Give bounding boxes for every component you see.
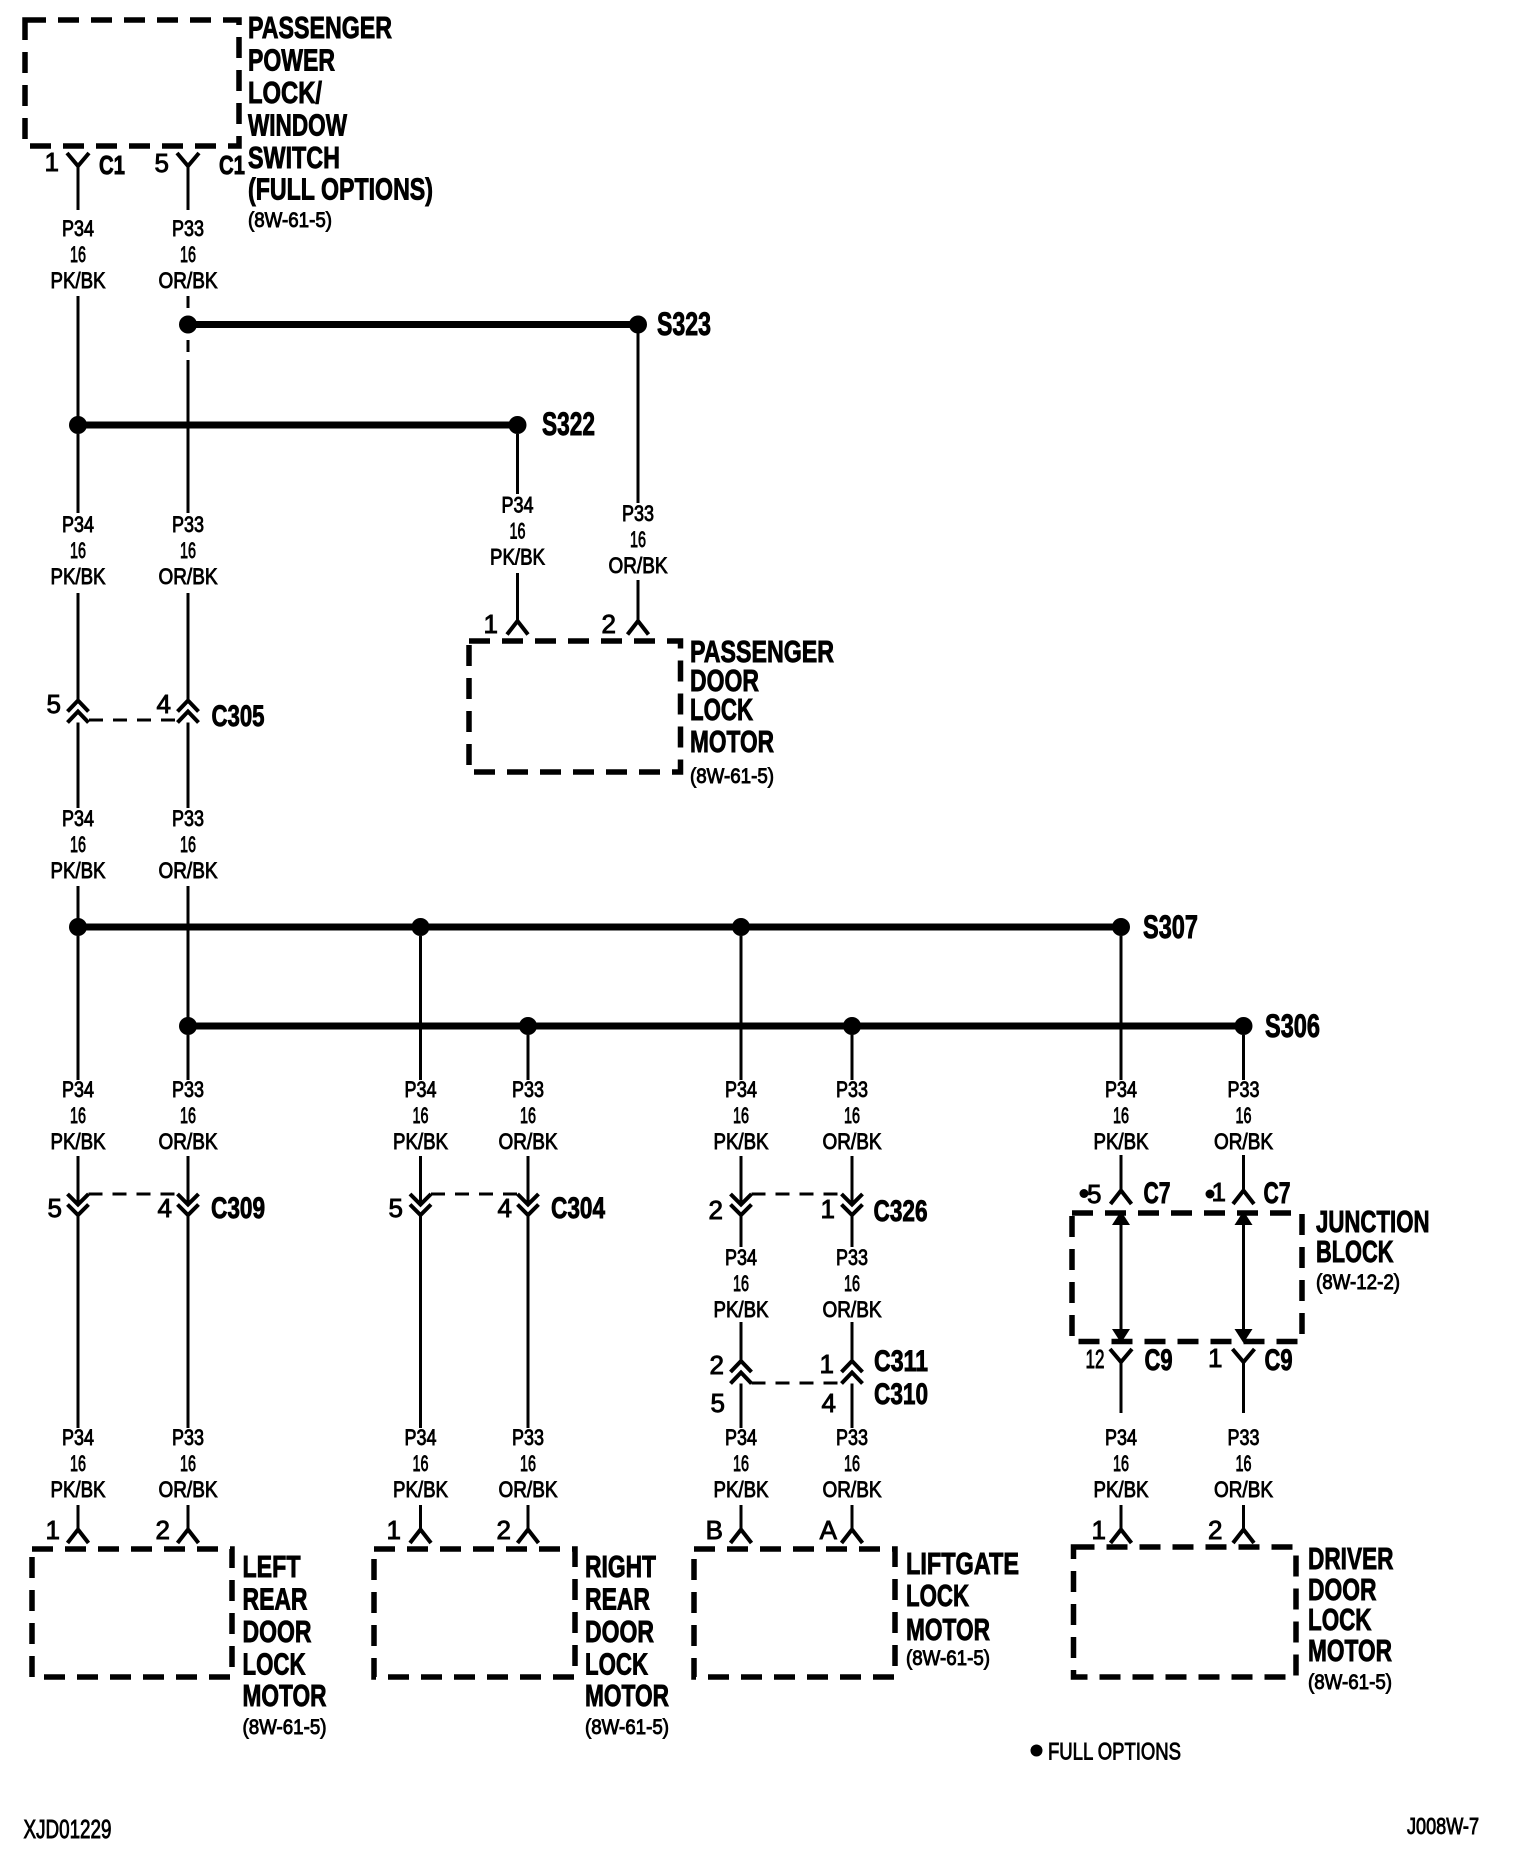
svg-text:1: 1 xyxy=(46,1515,60,1545)
svg-text:(8W-61-5): (8W-61-5) xyxy=(690,765,774,788)
wire label P33 16 OR/BK (left, above C305) xyxy=(159,512,218,589)
svg-text:POWER: POWER xyxy=(248,43,335,78)
wire label P33 16 OR/BK (liftgate, above C311) xyxy=(823,1245,882,1322)
wire P34 from S307 crossing S306 to label (right rear column) xyxy=(419,936,422,1080)
svg-text:16: 16 xyxy=(630,527,646,552)
connector C326 mating dashed link xyxy=(752,1193,842,1196)
svg-text:2: 2 xyxy=(602,609,616,639)
svg-text:16: 16 xyxy=(1236,1451,1252,1476)
svg-text:C9: C9 xyxy=(1265,1344,1293,1377)
svg-text:4: 4 xyxy=(822,1388,836,1418)
label: JUNCTION BLOCK (8W-12-2) xyxy=(1316,1204,1430,1294)
svg-text:(FULL OPTIONS): (FULL OPTIONS) xyxy=(248,172,433,207)
label: LIFTGATE LOCK MOTOR (8W-61-5) xyxy=(906,1546,1019,1670)
svg-text:LEFT: LEFT xyxy=(243,1549,301,1584)
svg-text:P33: P33 xyxy=(836,1245,868,1270)
wire P34 from label down to connector C305 pin 5 xyxy=(77,593,80,700)
splice S322 bus with junction dots xyxy=(69,416,527,434)
wire label P34 16 PK/BK (above S307) xyxy=(51,806,106,883)
junction block internal circuit arrow (P34 path) xyxy=(1112,1211,1130,1343)
svg-text:DOOR: DOOR xyxy=(243,1614,312,1649)
splice S323 bus with junction dots xyxy=(179,316,647,334)
wire P33 below C326 to label (liftgate) xyxy=(851,1215,854,1247)
wire P34 from C304 down to right rear motor label xyxy=(419,1215,422,1428)
svg-text:REAR: REAR xyxy=(243,1582,308,1617)
pin fork right rear motor pin 2 xyxy=(518,1505,539,1543)
label: RIGHT REAR DOOR LOCK MOTOR (8W-61-5) xyxy=(585,1549,669,1739)
svg-text:P33: P33 xyxy=(622,501,654,526)
wire label P34 16 PK/BK (top left) xyxy=(51,216,106,293)
pin fork driver motor pin 1 xyxy=(1111,1505,1132,1543)
svg-text:REAR: REAR xyxy=(585,1582,650,1617)
svg-text:P33: P33 xyxy=(172,512,204,537)
splice S307 bus with junction dots xyxy=(69,918,1130,936)
pin fork liftgate motor pin A xyxy=(842,1505,863,1543)
full-options bullet at C7 pin 5 xyxy=(1080,1189,1089,1198)
svg-text:4: 4 xyxy=(157,689,171,719)
svg-text:XJD01229: XJD01229 xyxy=(24,1814,112,1844)
svg-text:P34: P34 xyxy=(405,1425,437,1450)
connector C7 pin 5 fork xyxy=(1111,1191,1132,1205)
wire P33 from C1 pin5 down to splice S323 (dashed near splice) xyxy=(187,296,190,308)
connector C305 pin 4 chevrons (in-line) xyxy=(178,701,199,723)
pin fork right rear motor pin 1 xyxy=(410,1505,431,1543)
svg-text:1: 1 xyxy=(484,609,498,639)
svg-text:B: B xyxy=(706,1515,723,1545)
component box: passenger door lock motor xyxy=(469,641,681,772)
junction block internal circuit arrow (P33 path) xyxy=(1235,1211,1253,1343)
svg-text:P34: P34 xyxy=(725,1077,757,1102)
svg-text:P33: P33 xyxy=(1228,1425,1260,1450)
svg-text:PK/BK: PK/BK xyxy=(393,1477,448,1502)
pin fork driver motor pin 2 xyxy=(1233,1505,1254,1543)
pin fork 1 of passenger door lock motor xyxy=(507,573,528,635)
svg-text:OR/BK: OR/BK xyxy=(823,1477,882,1502)
wire label P34 16 PK/BK (passenger branch) xyxy=(490,493,545,570)
wire label P33 16 OR/BK (right rear motor) xyxy=(499,1425,558,1502)
svg-text:BLOCK: BLOCK xyxy=(1316,1234,1394,1269)
svg-text:LOCK: LOCK xyxy=(243,1647,306,1682)
svg-text:PASSENGER: PASSENGER xyxy=(248,10,392,45)
wire label P34 16 PK/BK (driver P34 above connector) xyxy=(1094,1077,1149,1154)
connector C311/C310 mating dashed link xyxy=(752,1382,842,1385)
svg-text:MOTOR: MOTOR xyxy=(1308,1633,1392,1668)
svg-text:LOCK: LOCK xyxy=(585,1647,648,1682)
svg-text:SWITCH: SWITCH xyxy=(248,140,340,175)
connector C309 pin 5 chevrons (in-line) xyxy=(68,1194,89,1215)
svg-text:P33: P33 xyxy=(172,806,204,831)
svg-text:P33: P33 xyxy=(512,1425,544,1450)
wire P34 from label down to splice S307 xyxy=(77,886,80,927)
svg-text:16: 16 xyxy=(413,1103,429,1128)
wire P34 from S307 crossing S306 to label (liftgate column) xyxy=(740,936,743,1080)
svg-text:P34: P34 xyxy=(1105,1425,1137,1450)
wire P34 branch from S322 down to passenger door lock motor xyxy=(516,434,519,494)
svg-text:OR/BK: OR/BK xyxy=(1214,1129,1273,1154)
svg-text:1: 1 xyxy=(1212,1177,1226,1207)
svg-text:PK/BK: PK/BK xyxy=(714,1297,769,1322)
wire P33 from S306 to label (liftgate column) xyxy=(851,1035,854,1080)
svg-text:OR/BK: OR/BK xyxy=(823,1297,882,1322)
svg-text:C9: C9 xyxy=(1145,1344,1173,1377)
svg-text:5: 5 xyxy=(155,148,169,178)
svg-text:A: A xyxy=(820,1515,838,1545)
wire P33 from label into connector C311 pin 1 xyxy=(851,1322,854,1361)
svg-text:C7: C7 xyxy=(1264,1177,1291,1210)
svg-text:16: 16 xyxy=(733,1103,749,1128)
wire label P33 16 OR/BK (top right) xyxy=(159,216,218,293)
wire label P33 16 OR/BK (left rear motor) xyxy=(159,1425,218,1502)
svg-text:PK/BK: PK/BK xyxy=(393,1129,448,1154)
svg-text:1: 1 xyxy=(821,1194,835,1224)
svg-text:16: 16 xyxy=(733,1451,749,1476)
svg-text:P33: P33 xyxy=(512,1077,544,1102)
svg-text:P34: P34 xyxy=(62,1077,94,1102)
connector C311/C310 pins 1/4 chevrons (in-line) xyxy=(842,1361,863,1384)
svg-text:1: 1 xyxy=(820,1349,834,1379)
svg-text:LOCK: LOCK xyxy=(690,692,753,727)
connector C309 mating dashed link xyxy=(89,1193,178,1196)
wire stem into C309 pin4 xyxy=(187,1156,190,1204)
svg-text:P34: P34 xyxy=(502,493,534,518)
svg-text:16: 16 xyxy=(844,1451,860,1476)
component box: liftgate lock motor xyxy=(694,1549,895,1677)
svg-text:P33: P33 xyxy=(172,1425,204,1450)
svg-text:16: 16 xyxy=(844,1103,860,1128)
svg-text:C311: C311 xyxy=(874,1345,928,1378)
svg-text:16: 16 xyxy=(510,519,526,544)
pin fork liftgate motor pin B xyxy=(731,1505,752,1543)
svg-text:PK/BK: PK/BK xyxy=(714,1477,769,1502)
svg-text:1: 1 xyxy=(1092,1515,1106,1545)
svg-text:OR/BK: OR/BK xyxy=(159,268,218,293)
wire P33 below C305 to label xyxy=(187,723,190,809)
svg-text:S323: S323 xyxy=(657,306,711,342)
svg-text:S307: S307 xyxy=(1143,909,1198,945)
connector C305 mating dashed link xyxy=(89,719,177,722)
svg-text:16: 16 xyxy=(520,1103,536,1128)
wire label P34 16 PK/BK (left, above C305) xyxy=(51,512,106,589)
wire label P33 16 OR/BK (left rear P33 above connector) xyxy=(159,1077,218,1154)
label: PASSENGER DOOR LOCK MOTOR (8W-61-5) xyxy=(690,634,834,788)
svg-text:16: 16 xyxy=(1236,1103,1252,1128)
wire label P33 16 OR/BK (driver P33 above connector) xyxy=(1214,1077,1273,1154)
svg-text:16: 16 xyxy=(180,1103,196,1128)
wire P34 from S307 crossing S306 to label (driver column) xyxy=(1120,936,1123,1080)
svg-text:16: 16 xyxy=(844,1271,860,1296)
svg-text:P34: P34 xyxy=(62,1425,94,1450)
wire P33 below splice S323 down crossing S322 to label xyxy=(187,340,190,513)
wire P33 from S306 to label (right rear column) xyxy=(527,1035,530,1080)
svg-text:MOTOR: MOTOR xyxy=(906,1612,990,1647)
connector C305 pin 5 chevrons (in-line) xyxy=(68,701,89,723)
svg-text:2: 2 xyxy=(497,1515,511,1545)
wire P33 below C310 to liftgate motor label xyxy=(851,1384,854,1429)
svg-text:OR/BK: OR/BK xyxy=(1214,1477,1273,1502)
svg-text:OR/BK: OR/BK xyxy=(159,1129,218,1154)
wire stem into connector C7 pin 5 xyxy=(1120,1155,1123,1190)
component box: junction block xyxy=(1072,1213,1302,1342)
svg-text:OR/BK: OR/BK xyxy=(159,1477,218,1502)
svg-text:LOCK: LOCK xyxy=(1308,1602,1372,1637)
svg-text:C309: C309 xyxy=(211,1192,265,1225)
svg-text:PK/BK: PK/BK xyxy=(51,564,106,589)
svg-text:2: 2 xyxy=(710,1350,724,1380)
svg-text:(8W-61-5): (8W-61-5) xyxy=(585,1716,669,1739)
svg-text:P34: P34 xyxy=(405,1077,437,1102)
svg-text:12: 12 xyxy=(1086,1344,1105,1374)
svg-text:4: 4 xyxy=(158,1193,172,1223)
wire stem into C304 pin4 xyxy=(527,1156,530,1204)
connector C9 pin 1 fork xyxy=(1233,1349,1255,1413)
svg-text:P33: P33 xyxy=(836,1077,868,1102)
svg-text:5: 5 xyxy=(48,1193,62,1223)
svg-text:PK/BK: PK/BK xyxy=(1094,1477,1149,1502)
svg-text:LOCK: LOCK xyxy=(906,1578,969,1613)
component box: right rear door lock motor xyxy=(374,1549,575,1677)
pin fork left rear motor pin 2 xyxy=(178,1505,199,1543)
svg-text:C305: C305 xyxy=(212,700,265,733)
svg-text:16: 16 xyxy=(1113,1103,1129,1128)
svg-text:1: 1 xyxy=(387,1515,401,1545)
label: PASSENGER POWER LOCK/WINDOW SWITCH (FULL OPTIONS) (8W-61-5) xyxy=(248,10,433,232)
svg-text:P33: P33 xyxy=(172,216,204,241)
svg-text:MOTOR: MOTOR xyxy=(690,724,774,759)
svg-text:5: 5 xyxy=(711,1388,725,1418)
label: DRIVER DOOR LOCK MOTOR (8W-61-5) xyxy=(1308,1541,1394,1694)
svg-text:5: 5 xyxy=(47,689,61,719)
wire label P34 16 PK/BK (liftgate motor) xyxy=(714,1425,769,1502)
wire label P34 16 PK/BK (liftgate, above C311) xyxy=(714,1245,769,1322)
connector C309 pin 4 chevrons (in-line) xyxy=(178,1194,199,1215)
svg-text:PK/BK: PK/BK xyxy=(51,1129,106,1154)
pin fork 2 of passenger door lock motor xyxy=(628,580,649,635)
component box: driver door lock motor xyxy=(1074,1547,1297,1677)
svg-text:P34: P34 xyxy=(725,1245,757,1270)
svg-text:2: 2 xyxy=(1208,1515,1222,1545)
wire P34 from C309 down to left rear motor label xyxy=(77,1215,80,1428)
connector C304 pin 5 chevrons (in-line) xyxy=(410,1194,431,1215)
wire P34 from S307 to label (left rear column) xyxy=(77,936,80,1080)
svg-text:P34: P34 xyxy=(62,216,94,241)
wire P33 from C309 down to left rear motor label xyxy=(187,1215,190,1428)
svg-text:P33: P33 xyxy=(172,1077,204,1102)
svg-text:OR/BK: OR/BK xyxy=(159,858,218,883)
wire P34 below C305 to label xyxy=(77,723,80,809)
svg-text:PK/BK: PK/BK xyxy=(51,858,106,883)
svg-text:16: 16 xyxy=(413,1451,429,1476)
svg-text:(8W-61-5): (8W-61-5) xyxy=(1308,1671,1392,1694)
svg-text:P34: P34 xyxy=(1105,1077,1137,1102)
svg-text:RIGHT: RIGHT xyxy=(585,1549,656,1584)
svg-text:C1: C1 xyxy=(219,150,245,180)
svg-text:C7: C7 xyxy=(1144,1177,1171,1210)
svg-text:16: 16 xyxy=(733,1271,749,1296)
wire label P34 16 PK/BK (driver motor) xyxy=(1094,1425,1149,1502)
pin fork left rear motor pin 1 xyxy=(68,1505,89,1543)
svg-text:16: 16 xyxy=(70,1451,86,1476)
svg-text:C326: C326 xyxy=(874,1195,928,1228)
svg-text:16: 16 xyxy=(1113,1451,1129,1476)
svg-text:1: 1 xyxy=(1208,1343,1222,1373)
svg-text:DRIVER: DRIVER xyxy=(1308,1541,1394,1576)
svg-text:OR/BK: OR/BK xyxy=(823,1129,882,1154)
wire label P33 16 OR/BK (driver motor) xyxy=(1214,1425,1273,1502)
wire label P34 16 PK/BK (left rear motor) xyxy=(51,1425,106,1502)
svg-text:16: 16 xyxy=(70,1103,86,1128)
svg-text:(8W-12-2): (8W-12-2) xyxy=(1316,1271,1400,1294)
svg-text:16: 16 xyxy=(70,242,86,267)
svg-text:4: 4 xyxy=(498,1193,512,1223)
wire label P34 16 PK/BK (right rear P34 above connector) xyxy=(393,1077,448,1154)
connector C304 pin 4 chevrons (in-line) xyxy=(518,1194,539,1215)
svg-text:16: 16 xyxy=(180,1451,196,1476)
connector C304 mating dashed link xyxy=(431,1193,518,1196)
svg-text:J008W-7: J008W-7 xyxy=(1407,1813,1479,1839)
svg-text:OR/BK: OR/BK xyxy=(159,564,218,589)
svg-text:P34: P34 xyxy=(62,512,94,537)
svg-text:WINDOW: WINDOW xyxy=(248,108,348,143)
wire label P33 16 OR/BK (right rear P33 above connector) xyxy=(499,1077,558,1154)
splice S306 bus with junction dots xyxy=(179,1017,1253,1035)
svg-text:P34: P34 xyxy=(62,806,94,831)
wire label P33 16 OR/BK (liftgate motor) xyxy=(823,1425,882,1502)
connector C311/C310 pins 2/5 chevrons (in-line) xyxy=(731,1361,752,1384)
svg-text:C1: C1 xyxy=(99,150,125,180)
svg-text:(8W-61-5): (8W-61-5) xyxy=(906,1647,990,1670)
wire P34 below C310 to liftgate motor label xyxy=(740,1384,743,1429)
svg-text:PK/BK: PK/BK xyxy=(51,268,106,293)
wire P33 from S306 to label (driver column) xyxy=(1242,1035,1245,1080)
svg-text:16: 16 xyxy=(180,242,196,267)
component box: passenger power lock/window switch xyxy=(25,20,239,146)
wire P33 from label down to connector C305 pin 4 xyxy=(187,593,190,700)
wire P33 from C304 down to right rear motor label xyxy=(527,1215,530,1428)
svg-text:OR/BK: OR/BK xyxy=(499,1477,558,1502)
svg-text:C310: C310 xyxy=(874,1378,928,1411)
svg-text:PK/BK: PK/BK xyxy=(714,1129,769,1154)
svg-text:16: 16 xyxy=(180,832,196,857)
svg-text:C304: C304 xyxy=(551,1192,605,1225)
svg-text:OR/BK: OR/BK xyxy=(609,553,668,578)
svg-text:(8W-61-5): (8W-61-5) xyxy=(243,1716,327,1739)
svg-text:PK/BK: PK/BK xyxy=(1094,1129,1149,1154)
svg-text:PK/BK: PK/BK xyxy=(490,545,545,570)
svg-text:16: 16 xyxy=(180,538,196,563)
label: LEFT REAR DOOR LOCK MOTOR (8W-61-5) xyxy=(243,1549,327,1739)
svg-text:S322: S322 xyxy=(542,406,595,442)
svg-text:(8W-61-5): (8W-61-5) xyxy=(248,209,332,232)
wire P34 from C1 pin1 down to splice S322 xyxy=(77,296,80,425)
svg-text:2: 2 xyxy=(709,1195,723,1225)
wire stem into connector C7 pin 1 xyxy=(1242,1155,1245,1190)
svg-text:DOOR: DOOR xyxy=(585,1614,654,1649)
svg-text:2: 2 xyxy=(156,1515,170,1545)
wire label P34 16 PK/BK (left rear P34 above connector) xyxy=(51,1077,106,1154)
connector C7 pin 1 fork xyxy=(1233,1191,1254,1205)
wire P33 from S306 to label (left rear column) xyxy=(187,1035,190,1080)
svg-text:PK/BK: PK/BK xyxy=(51,1477,106,1502)
wire P34 below C326 to label (liftgate) xyxy=(740,1215,743,1247)
wire P34 below splice S322 to label xyxy=(77,434,80,513)
wire label P33 16 OR/BK (passenger branch) xyxy=(609,501,668,578)
wire stem into C304 pin5 xyxy=(419,1156,422,1204)
svg-text:5: 5 xyxy=(1087,1179,1101,1209)
wire label P33 16 OR/BK (liftgate P33 above connector) xyxy=(823,1077,882,1154)
wire stem into C326 pin2 xyxy=(740,1156,743,1204)
wire stem into C309 pin5 xyxy=(77,1156,80,1204)
svg-text:P34: P34 xyxy=(725,1425,757,1450)
svg-text:LOCK/: LOCK/ xyxy=(248,75,322,110)
wire label P33 16 OR/BK (above S306) xyxy=(159,806,218,883)
component box: left rear door lock motor xyxy=(32,1549,232,1677)
wire label P34 16 PK/BK (right rear motor) xyxy=(393,1425,448,1502)
full-options bullet at C7 pin 1 xyxy=(1206,1190,1215,1199)
legend: full options bullet xyxy=(1031,1745,1043,1757)
svg-text:P33: P33 xyxy=(1228,1077,1260,1102)
svg-text:LIFTGATE: LIFTGATE xyxy=(906,1546,1019,1581)
svg-text:MOTOR: MOTOR xyxy=(243,1678,327,1713)
svg-text:OR/BK: OR/BK xyxy=(499,1129,558,1154)
svg-text:S306: S306 xyxy=(1265,1008,1320,1044)
connector C9 pin 12 fork xyxy=(1110,1349,1132,1413)
wire label P34 16 PK/BK (liftgate P34 above connector) xyxy=(714,1077,769,1154)
connector C326 pin 2 chevrons (in-line) xyxy=(731,1194,752,1215)
svg-text:1: 1 xyxy=(45,147,59,177)
svg-text:5: 5 xyxy=(389,1193,403,1223)
svg-text:P33: P33 xyxy=(836,1425,868,1450)
svg-text:MOTOR: MOTOR xyxy=(585,1678,669,1713)
connector C1 pin 1 fork xyxy=(67,153,89,210)
svg-text:FULL OPTIONS: FULL OPTIONS xyxy=(1048,1739,1181,1766)
wire P34 from label into connector C311 pin 2 xyxy=(740,1322,743,1361)
connector C1 pin 5 fork xyxy=(177,153,199,210)
svg-text:16: 16 xyxy=(520,1451,536,1476)
wire P33 from label down crossing S307 to splice S306 xyxy=(187,886,190,1026)
connector C326 pin 1 chevrons (in-line) xyxy=(842,1194,863,1215)
svg-text:16: 16 xyxy=(70,538,86,563)
wire P33 branch from S323 down to passenger door lock motor xyxy=(637,333,640,503)
svg-text:16: 16 xyxy=(70,832,86,857)
wire stem into C326 pin1 xyxy=(851,1156,854,1204)
